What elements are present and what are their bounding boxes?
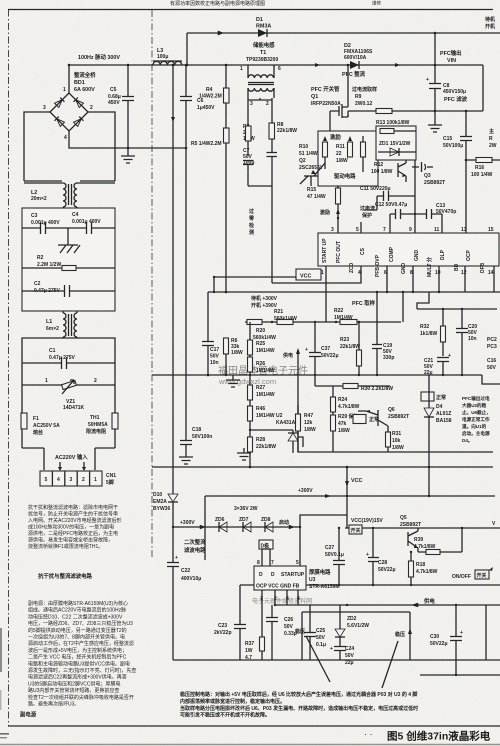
svg-text:50V22μ: 50V22μ (430, 641, 448, 647)
svg-text:1M1/4W: 1M1/4W (256, 348, 275, 354)
svg-text:1W: 1W (245, 648, 253, 654)
svg-text:400V10μ: 400V10μ (181, 576, 201, 582)
svg-text:过电流: 过电流 (360, 205, 375, 212)
svg-text:R23: R23 (340, 337, 349, 343)
wire y675 (420, 674, 500, 676)
svg-text:U3的5脚启动电压和2脚VCC供电；厚膜电: U3的5脚启动电压和2脚VCC供电；厚膜电 (28, 680, 121, 687)
ground below C8 (428, 111, 442, 132)
svg-text:50V0.1μ: 50V0.1μ (325, 552, 344, 558)
svg-text:5: 5 (356, 227, 359, 233)
svg-text:PFC输出过电: PFC输出过电 (462, 395, 490, 402)
wire U3 pin stubs top (262, 549, 270, 566)
svg-text:开机 +390V: 开机 +390V (251, 302, 278, 309)
capacitor below R8 (248, 153, 277, 187)
svg-text:R39: R39 (414, 537, 423, 543)
capacitor C28 electrolytic (366, 527, 396, 585)
svg-text:保护: 保护 (361, 212, 372, 219)
wire VCC feed y277 (214, 277, 296, 292)
svg-text:波后一是形成+5V电压，为主控制系统供电；: 波后一是形成+5V电压，为主控制系统供电； (28, 647, 127, 654)
svg-text:稳压: 稳压 (395, 631, 405, 638)
svg-text:R26: R26 (256, 361, 265, 367)
node label standby 300V (251, 295, 278, 309)
svg-text:TH1: TH1 (90, 415, 100, 421)
diode D2 PFC rectifier (342, 43, 373, 78)
resistor R15 (307, 186, 341, 233)
protection circuit box (298, 375, 493, 452)
svg-text:R32: R32 (420, 324, 429, 330)
label regulator sample (295, 628, 330, 682)
svg-text:3: 3 (43, 105, 46, 111)
svg-text:副电源: 副电源 (20, 711, 37, 719)
svg-text:PFC 整流: PFC 整流 (342, 70, 366, 78)
svg-text:电源滤波后C22再整流形成+300V供电。再查: 电源滤波后C22再整流形成+300V供电。再查 (28, 674, 127, 681)
svg-text:450V150μ: 450V150μ (443, 89, 466, 95)
svg-text:13: 13 (461, 227, 467, 233)
wire y585 (240, 584, 500, 586)
svg-text:2: 2 (82, 477, 85, 483)
svg-text:ZD7: ZD7 (239, 517, 249, 523)
svg-text:5脚: 5脚 (106, 479, 114, 486)
label overcurrent protect (360, 205, 375, 219)
svg-text:+300V: +300V (180, 520, 195, 526)
svg-text:一次绕组为U3的7、8脚内部开关管供电。电: 一次绕组为U3的7、8脚内部开关管供电。电 (28, 634, 125, 641)
svg-text:PFC 取样: PFC 取样 (352, 299, 376, 307)
svg-text:100Hz 脉动 300V: 100Hz 脉动 300V (78, 53, 120, 61)
svg-text:有源功率因数校正电路与副电源电路原理图: 有源功率因数校正电路与副电源电路原理图 (170, 0, 265, 7)
capacitor C2 (22, 281, 115, 297)
svg-text:11: 11 (434, 227, 440, 233)
wire pin6 stub (386, 266, 388, 292)
resistor R27 (248, 385, 275, 406)
svg-text:50V: 50V (316, 635, 326, 641)
svg-text:1μ450V: 1μ450V (197, 105, 215, 111)
svg-text:3: 3 (250, 101, 253, 107)
op-amp U1 PFC controller IC box (318, 233, 499, 266)
svg-text:12k: 12k (304, 420, 313, 426)
svg-text:D10: D10 (153, 492, 162, 498)
node junction 187,65 (186, 64, 189, 67)
resistor R2 (22, 255, 115, 271)
svg-text:47k: 47k (338, 421, 347, 427)
svg-text:600V/10A: 600V/10A (344, 55, 367, 61)
svg-text:10: 10 (435, 270, 441, 276)
svg-text:正常: 正常 (436, 394, 446, 401)
svg-text:副电源：由厚膜电路STR-A6159M(U3)为核心: 副电源：由厚膜电路STR-A6159M(U3)为核心 (28, 600, 128, 607)
capacitor C4 (68, 212, 115, 234)
svg-text:100μ: 100μ (157, 54, 168, 60)
svg-text:100 1/8W: 100 1/8W (371, 169, 393, 175)
svg-text:开关: 开关 (477, 572, 487, 579)
svg-text:50V100n: 50V100n (192, 434, 212, 440)
capacitor C30 electrolytic (430, 605, 463, 675)
svg-text:47 1/4W: 47 1/4W (307, 194, 326, 200)
svg-text:R15: R15 (307, 187, 316, 193)
svg-text:3: 3 (70, 477, 73, 483)
svg-text:2SB892T: 2SB892T (388, 414, 409, 420)
ground below divider (226, 375, 240, 387)
resistor R5 (191, 128, 229, 292)
svg-text:PFC OUT: PFC OUT (336, 241, 342, 263)
svg-text:成100Hz脉动300V的电压，一是为副电: 成100Hz脉动300V的电压，一是为副电 (28, 524, 114, 531)
svg-text:COMP: COMP (389, 246, 395, 262)
svg-text:整流全桥: 整流全桥 (74, 71, 96, 79)
label supply bottom (412, 597, 435, 607)
capacitor C11 (360, 186, 415, 210)
svg-text:BA158: BA158 (436, 418, 452, 424)
svg-text:OCP VCC GND FB: OCP VCC GND FB (256, 584, 300, 590)
svg-text:22μ: 22μ (345, 660, 354, 666)
svg-text:L1: L1 (46, 319, 52, 325)
svg-text:ON/OFF: ON/OFF (452, 574, 471, 580)
wire vert x486 (485, 605, 487, 660)
svg-text:12: 12 (461, 270, 467, 276)
svg-text:当取样电路分压电阻损坏改坏后 U6、P03 发生漏电、开路故: 当取样电路分压电阻损坏改坏后 U6、P03 发生漏电、开路故障时，造成输出电压不… (180, 705, 418, 712)
svg-text:ZD1 15V1/2W: ZD1 15V1/2W (379, 141, 411, 147)
svg-text:0.1μ: 0.1μ (316, 642, 326, 648)
capacitor C24 electrolytic (330, 646, 355, 666)
text block anti-interference description (28, 504, 122, 550)
svg-text:15: 15 (488, 227, 494, 233)
resistor R8 (269, 98, 297, 152)
svg-text:1/4W2.2M: 1/4W2.2M (199, 94, 222, 100)
svg-text:检: 检 (249, 222, 254, 229)
wires box2 bottom to CN1 (44, 448, 95, 470)
svg-text:R46: R46 (256, 406, 265, 412)
border frame bottom line (8, 725, 500, 727)
label AC220V input (55, 453, 88, 471)
capacitor C21 electrolytic (424, 353, 451, 376)
svg-text:C16: C16 (487, 358, 496, 364)
capacitor at Q3 base (412, 162, 433, 172)
capacitor C18 (180, 148, 212, 455)
svg-text:9: 9 (409, 227, 412, 233)
svg-text:可能引发不稳压或不开机或不开机故障。: 可能引发不稳压或不开机或不开机故障。 (180, 712, 270, 719)
svg-text:大器U2的稳: 大器U2的稳 (462, 402, 487, 409)
svg-text:C27: C27 (325, 545, 334, 551)
svg-text:2SB892T: 2SB892T (424, 180, 445, 186)
label protect / normal boxed (353, 415, 379, 424)
svg-text:1M1/4W: 1M1/4W (256, 392, 275, 398)
svg-text:R28: R28 (256, 437, 265, 443)
wire top rail y33 (187, 32, 500, 34)
svg-text:D1: D1 (256, 17, 263, 23)
svg-text:R31: R31 (392, 431, 401, 437)
scan edge marks bottom-left (0, 628, 2, 672)
VCC box at pin1 (296, 269, 321, 280)
zener ZD2 (335, 605, 369, 646)
svg-text:C1: C1 (49, 348, 56, 354)
svg-text:源供电，二是经PFC电路校正后，为主电: 源供电，二是经PFC电路校正后，为主电 (28, 530, 118, 537)
resistor R18 (409, 551, 438, 585)
wire 300V rail y65 (69, 64, 483, 66)
svg-text:R21: R21 (274, 309, 283, 315)
svg-text:D: D (271, 572, 275, 578)
wire rail y467 (152, 466, 493, 468)
svg-text:R10: R10 (299, 144, 308, 150)
svg-text:PFC 滤波: PFC 滤波 (444, 95, 468, 103)
svg-text:50V: 50V (284, 624, 294, 630)
label secondary rectifier (184, 538, 206, 554)
svg-text:源发生故障时，三无(指示灯不亮、灯闪时)，先查: 源发生故障时，三无(指示灯不亮、灯闪时)，先查 (28, 667, 136, 674)
capacitor C37 electrolytic (305, 321, 339, 375)
wire rail +300V y496 (205, 495, 495, 497)
svg-text:电子元器件维修资料网: 电子元器件维修资料网 (252, 597, 312, 605)
svg-text:R12: R12 (374, 162, 383, 168)
svg-text:5: 5 (45, 477, 48, 483)
resistor R28 (248, 429, 277, 467)
drive circuit box (318, 131, 378, 186)
svg-text:450V: 450V (108, 100, 120, 106)
svg-text:R25: R25 (256, 341, 265, 347)
transformer L1 common-mode choke (46, 311, 77, 338)
svg-text:5: 5 (296, 560, 299, 566)
svg-text:待机 +300V: 待机 +300V (251, 295, 278, 302)
svg-text:6A 600V: 6A 600V (74, 87, 95, 93)
svg-text:动电压经D10、C22 二次整流滤波成+300V: 动电压经D10、C22 二次整流滤波成+300V (28, 613, 123, 620)
svg-text:R24: R24 (338, 397, 347, 403)
wire U3 pin stubs bottom (262, 590, 298, 660)
svg-text:过: 过 (249, 208, 254, 215)
svg-text:+: + (175, 555, 178, 561)
capacitor C15 (443, 111, 472, 233)
svg-text:C15: C15 (443, 136, 452, 142)
svg-text:供电: 供电 (423, 597, 435, 605)
svg-text:+300V: +300V (298, 488, 313, 494)
ground below C18 (179, 455, 193, 464)
svg-text:IRFP22N50A: IRFP22N50A (311, 101, 341, 107)
diode D4 (421, 375, 452, 496)
capacitor C20 (456, 309, 478, 375)
svg-text:C24: C24 (345, 646, 354, 652)
svg-text:BD1: BD1 (74, 80, 85, 86)
svg-text:C17: C17 (210, 347, 219, 353)
svg-text:GND: GND (414, 250, 420, 262)
svg-text:的5脚提供启动电压，另一路通过变压器T2的: 的5脚提供启动电压，另一路通过变压器T2的 (28, 627, 127, 634)
svg-text:1/8W: 1/8W (392, 445, 404, 451)
svg-text:驱动电路: 驱动电路 (334, 172, 356, 180)
svg-text:C25: C25 (316, 628, 325, 634)
label thick film circuit (309, 568, 340, 590)
svg-text:PFC 开关管: PFC 开关管 (311, 85, 340, 93)
wire arrow on y65 (315, 63, 400, 67)
svg-text:R47: R47 (304, 413, 313, 419)
EMI box 1 (22, 208, 115, 311)
svg-text:14: 14 (488, 270, 494, 276)
svg-text:3×36V 2W: 3×36V 2W (234, 506, 258, 512)
svg-text:50HM5A: 50HM5A (88, 422, 108, 428)
svg-text:1: 1 (94, 477, 97, 483)
capacitor C25 (304, 605, 326, 660)
svg-text:C22: C22 (181, 568, 190, 574)
svg-text:330p: 330p (383, 355, 394, 361)
resistor R22 (334, 308, 357, 325)
svg-text:Q1: Q1 (311, 94, 318, 100)
svg-text:组成。通电后AC220V市电整流后的100Hz脉: 组成。通电后AC220V市电整流后的100Hz脉 (28, 607, 126, 614)
resistor R10 (299, 136, 328, 169)
svg-text:7: 7 (271, 560, 274, 566)
svg-text:D4: D4 (436, 404, 443, 410)
svg-text:PC3: PC3 (487, 344, 497, 350)
svg-text:烧整流桥就换F1或限流电阻TH1。: 烧整流桥就换F1或限流电阻TH1。 (28, 543, 103, 550)
capacitor C13 (415, 203, 456, 233)
svg-text:6: 6 (278, 66, 281, 72)
svg-text:22k1/8W: 22k1/8W (256, 444, 276, 450)
svg-text:R37: R37 (245, 641, 254, 647)
resistor R26 (248, 357, 275, 385)
wire pin4 ZCD stub (272, 186, 361, 322)
svg-text:二是产生 VCC 电压，经开关机控制后为PFC: 二是产生 VCC 电压，经开关机控制后为PFC (28, 654, 127, 661)
svg-text:50V100μ: 50V100μ (443, 143, 463, 149)
svg-text:START UP: START UP (322, 238, 328, 263)
label ON/OFF (452, 567, 493, 580)
wire y655 right (410, 659, 500, 661)
svg-text:熔丝: 熔丝 (33, 429, 43, 436)
svg-text:CS: CS (360, 247, 366, 255)
svg-text:R27: R27 (256, 385, 265, 391)
zener ZD7 (239, 517, 251, 532)
callout text right PFC OVP (462, 395, 491, 444)
resistor R4 (199, 64, 229, 128)
svg-text:Q6: Q6 (388, 407, 395, 413)
resistor R21 (274, 309, 297, 325)
svg-text:R11: R11 (336, 144, 345, 150)
svg-text:厚膜电路: 厚膜电路 (309, 568, 331, 576)
wire x260 T1 aux (248, 98, 272, 100)
resistor R48 in drive box (361, 136, 366, 172)
svg-text:4.7k1/8W: 4.7k1/8W (416, 569, 438, 575)
svg-text:止。U6截止，: 止。U6截止， (462, 409, 491, 416)
node standby/on labels top right (485, 16, 495, 30)
wire pin5 CS column (360, 222, 362, 233)
svg-text:R16: R16 (475, 165, 484, 171)
svg-text:R20: R20 (256, 328, 265, 334)
svg-text:路。避免再次损坏U3。: 路。避免再次损坏U3。 (28, 701, 79, 708)
capacitor C1 (22, 348, 115, 369)
resistor R47 (296, 405, 316, 452)
svg-text:1M1/4W: 1M1/4W (256, 368, 275, 374)
svg-text:22k1/8W: 22k1/8W (277, 128, 297, 134)
svg-text:2.2M 1/2W: 2.2M 1/2W (37, 262, 61, 268)
capacitor C8 PFC filter (426, 65, 468, 112)
svg-text:C2: C2 (34, 281, 41, 287)
svg-text:+: + (330, 646, 333, 652)
svg-text:+: + (305, 347, 308, 353)
svg-text:VCC: VCC (351, 478, 362, 484)
svg-text:ZD2: ZD2 (347, 616, 357, 622)
svg-text:4.7k1/8W: 4.7k1/8W (338, 404, 360, 410)
resistor R29 (331, 413, 359, 452)
svg-text:22μ: 22μ (424, 370, 433, 376)
MOSFET Q1 PFC switch (311, 64, 349, 131)
border frame left dash-dot line (8, 10, 10, 727)
svg-text:滤波电路: 滤波电路 (184, 546, 206, 554)
svg-text:R5 1/4W2.2M: R5 1/4W2.2M (191, 141, 222, 147)
svg-text:VIN: VIN (447, 58, 456, 64)
svg-text:抗干扰和整流滤波电路：滤除市电电网干: 抗干扰和整流滤波电路：滤除市电电网干 (28, 504, 118, 511)
resistor R23 (340, 321, 362, 375)
svg-text:+: + (460, 630, 463, 636)
svg-text:C3: C3 (31, 213, 38, 219)
svg-text:待机: 待机 (485, 16, 495, 23)
capacitor C26 (266, 605, 297, 660)
connector CN1 (40, 471, 116, 486)
svg-text:R22: R22 (334, 308, 343, 314)
resistor R7 (243, 100, 255, 156)
svg-text:Q3: Q3 (424, 173, 431, 179)
svg-text:1/8W: 1/8W (231, 350, 243, 356)
zener ZD1 (378, 141, 416, 156)
svg-text:RM3A: RM3A (256, 24, 271, 30)
varistor VZ1 (22, 378, 115, 411)
svg-text:4: 4 (57, 477, 60, 483)
svg-text:VCC: VCC (300, 274, 311, 280)
svg-text:PC2: PC2 (487, 337, 497, 343)
svg-text:8: 8 (257, 560, 260, 566)
capacitor C27 (325, 527, 345, 585)
svg-text:D: D (259, 572, 263, 578)
svg-text:22: 22 (336, 151, 342, 157)
wire bridge right node2 to x115 (88, 112, 115, 181)
label regulator right (302, 612, 412, 688)
caption figure 5 (364, 729, 491, 743)
svg-text:0.47μ 275V: 0.47μ 275V (49, 355, 76, 361)
svg-text:稳压: 稳压 (295, 628, 305, 635)
svg-text:2W0.12: 2W0.12 (355, 101, 372, 107)
svg-text:BYW36: BYW36 (153, 506, 170, 512)
wire pin14 stub (493, 266, 495, 292)
transformer T1 storage inductor (240, 41, 281, 107)
capacitor C12 (375, 160, 416, 233)
svg-text:R2: R2 (37, 255, 44, 261)
svg-text:VCC(19V)15V: VCC(19V)15V (351, 518, 383, 524)
zener ZD6 (215, 517, 227, 532)
svg-text:5.6V1/2W: 5.6V1/2W (347, 623, 369, 629)
svg-text:2SB892T: 2SB892T (400, 522, 421, 528)
svg-text:14D471K: 14D471K (63, 405, 85, 411)
IC U3 STR-A6159M (254, 560, 306, 602)
svg-text:C28: C28 (378, 560, 387, 566)
svg-text:+: + (426, 77, 429, 83)
svg-text:10n: 10n (468, 336, 477, 342)
wire VCC 19V rail y528 (345, 527, 500, 529)
svg-text:道。向U1的: 道。向U1的 (462, 423, 487, 430)
border frame top line (8, 9, 493, 11)
svg-text:20m×2: 20m×2 (31, 196, 47, 202)
wire y181 L2 top link (24, 180, 115, 182)
svg-text:50V: 50V (210, 354, 220, 360)
wire rail y292 (208, 291, 500, 293)
label VCC(19V)15V (349, 518, 383, 534)
svg-text:2W: 2W (489, 143, 497, 149)
svg-text:电源正常工作: 电源正常工作 (462, 416, 490, 423)
page bottom shadow line (0, 744, 500, 746)
wire pin3 stub (337, 217, 339, 219)
resistor R39 (414, 527, 463, 555)
svg-text:ZD8: ZD8 (261, 517, 271, 523)
resistor R16 (466, 158, 500, 179)
wire startup route (300, 515, 347, 566)
svg-text:1/8W: 1/8W (336, 158, 348, 164)
wire bridge left to x24 (24, 112, 50, 181)
svg-text:1: 1 (240, 66, 243, 72)
svg-text:2: 2 (90, 105, 93, 111)
resistor R46 (248, 406, 299, 437)
text block bottom regulation description (180, 691, 418, 719)
wire right mid y309 (417, 292, 497, 309)
wire pin12 stub (464, 266, 466, 292)
svg-text:22k1/8W: 22k1/8W (340, 344, 360, 350)
wire vert x173 zero-cross line (172, 65, 174, 494)
